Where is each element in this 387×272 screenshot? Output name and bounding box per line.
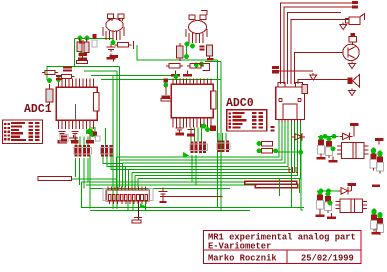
ground tri 3 — [351, 89, 353, 91]
wire green bus 8 lines connector-to-U3 — [115, 157, 117, 188]
jack X2 — [349, 17, 360, 25]
resistor array RN4 — [218, 141, 221, 153]
wire right mid net — [277, 151, 301, 153]
parts left of U3 / gnd tri 4 — [279, 70, 313, 72]
wire bottom bus — [107, 207, 304, 209]
regulator cluster VR2 — [347, 183, 356, 186]
junction arrow — [140, 203, 146, 208]
jumper table JP2 — [227, 110, 267, 131]
junction pin1 U1 — [56, 77, 61, 82]
connector X1 — [106, 190, 150, 201]
resistor array RN1 — [75, 145, 78, 157]
parts above ADC1 — [78, 53, 87, 56]
net bar 1 — [245, 181, 297, 184]
IC5 lower cluster — [186, 44, 188, 57]
speaker LS1 — [348, 78, 353, 85]
transistor Q1 — [343, 44, 359, 60]
IC U3 body — [276, 87, 305, 120]
wire left verticals — [75, 158, 77, 177]
wire mid verticals — [191, 155, 193, 182]
IC U3 pins — [278, 120, 280, 123]
wire inter-IC nets — [137, 45, 218, 60]
svg-text:25/02/1999: 25/02/1999 — [301, 254, 354, 264]
parts left of RN1 — [61, 136, 67, 138]
wire mid maroon line — [167, 195, 223, 197]
net bar 2 — [255, 184, 298, 187]
jumper table JP1 — [3, 120, 43, 144]
net label bar — [38, 177, 72, 181]
svg-text:ADC0: ADC0 — [226, 97, 254, 110]
ground tri 2 — [351, 62, 353, 64]
IC4 lower cluster — [111, 40, 116, 45]
parts below U2 — [176, 127, 184, 129]
ground tri 1 — [342, 23, 344, 25]
wire green stubs at bars — [279, 179, 281, 196]
crystal Y1 — [351, 33, 356, 36]
wire top-left net — [75, 38, 114, 40]
op-amp can IC5 — [189, 21, 207, 34]
parts below ADC1 — [59, 131, 66, 133]
cap right of U3 — [302, 84, 308, 93]
IC U1 pins — [58, 79, 60, 88]
wire top-right bus — [281, 3, 353, 84]
resistor cluster R/R right of tables — [257, 141, 262, 146]
R pair with junctions — [78, 36, 83, 41]
wire to net label bar — [72, 178, 117, 180]
wire below connector — [127, 201, 129, 211]
wire lower green bus — [82, 181, 246, 183]
wire verticals through connector — [112, 75, 114, 209]
pin header P1 — [352, 1, 358, 4]
wire RN2 leads — [103, 157, 123, 164]
IC U2 pins — [172, 79, 174, 85]
IC U1 ADC1 body — [56, 87, 97, 120]
cap+gnd left of U2 — [164, 79, 169, 83]
title block — [204, 231, 362, 264]
wire stubs to arrays — [75, 137, 77, 146]
regulator cluster VR1 — [350, 123, 359, 126]
resistor array RN3 — [191, 142, 194, 154]
op-amp can IC4 — [106, 19, 123, 32]
stubs left-below U3 — [271, 126, 275, 128]
resistor array RN2 — [101, 145, 104, 157]
pin stubs above bars — [288, 167, 290, 173]
IC U2 body — [171, 84, 213, 118]
svg-text:E-Variometer: E-Variometer — [208, 242, 271, 252]
capacitor to gnd under X1 — [137, 201, 139, 219]
svg-text:ADC1: ADC1 — [24, 103, 52, 116]
svg-text:Marko Rocznik: Marko Rocznik — [208, 254, 277, 264]
parts left of U2 — [207, 45, 213, 56]
